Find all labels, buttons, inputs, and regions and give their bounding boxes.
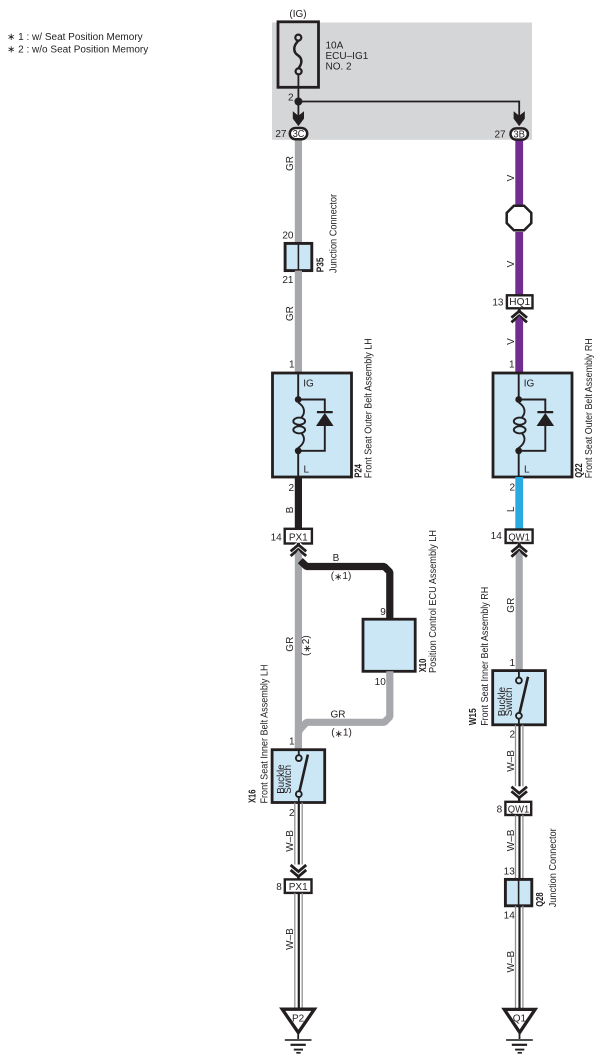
position control ECU X10 box xyxy=(363,619,415,671)
svg-text:Position Control ECU Assembly: Position Control ECU Assembly LH xyxy=(428,530,439,673)
Q22 diode xyxy=(537,411,553,413)
svg-text:(∗2): (∗2) xyxy=(301,635,313,656)
svg-text:9: 9 xyxy=(380,607,386,618)
Q22 terminal dots xyxy=(515,396,522,403)
wire B branch to X10 pin 9 xyxy=(300,561,390,620)
arrow into 3B xyxy=(514,111,525,126)
connector 3B xyxy=(511,128,528,139)
svg-text:Switch: Switch xyxy=(504,687,515,716)
arrow into 3C xyxy=(293,111,304,126)
svg-text:QW1: QW1 xyxy=(508,532,530,543)
svg-text:V: V xyxy=(506,338,517,345)
svg-text:2: 2 xyxy=(509,483,515,494)
svg-text:20: 20 xyxy=(282,231,294,242)
fuse element xyxy=(294,41,301,68)
wire stub above QW1 xyxy=(518,798,521,802)
svg-text:QW1: QW1 xyxy=(508,804,530,815)
svg-text:NO. 2: NO. 2 xyxy=(326,62,353,73)
svg-text:8: 8 xyxy=(497,804,503,815)
svg-text:ECU–IG1: ECU–IG1 xyxy=(326,51,369,62)
chevron continuation up xyxy=(511,546,527,557)
Q22 coil xyxy=(519,403,525,418)
chevron continuation up xyxy=(291,545,307,556)
wire W-B W15 to QW1 xyxy=(515,725,517,787)
wire V octagon to HQ1 xyxy=(515,232,523,296)
svg-text:L: L xyxy=(304,465,310,476)
svg-text:W–B: W–B xyxy=(285,928,296,950)
seat belt assembly Q22 box xyxy=(493,373,572,477)
svg-text:10A: 10A xyxy=(326,41,344,52)
P24 terminal dots xyxy=(295,396,302,403)
seat belt assembly P24 box xyxy=(273,373,352,477)
svg-text:1: 1 xyxy=(289,359,295,370)
svg-text:Q1: Q1 xyxy=(513,1014,527,1025)
svg-text:Junction Connector: Junction Connector xyxy=(548,828,559,908)
svg-text:Front Seat Inner Belt Assembly: Front Seat Inner Belt Assembly RH xyxy=(480,587,491,726)
svg-text:(∗1): (∗1) xyxy=(331,728,352,740)
wire GR X10 pin10 to trunk xyxy=(298,671,389,750)
ground P2 xyxy=(282,1009,314,1032)
svg-text:GR: GR xyxy=(285,156,296,171)
svg-text:2: 2 xyxy=(289,808,295,819)
svg-text:10: 10 xyxy=(375,677,387,688)
svg-text:HQ1: HQ1 xyxy=(509,297,530,308)
svg-text:13: 13 xyxy=(504,866,516,877)
buckle switch X16 box xyxy=(272,750,325,803)
svg-text:Front Seat Inner Belt Assembly: Front Seat Inner Belt Assembly LH xyxy=(259,665,270,804)
wire node 2 horizontal to right branch xyxy=(298,101,519,103)
svg-text:W–B: W–B xyxy=(506,829,517,851)
wire W-B QW1 to Q28 xyxy=(515,815,517,879)
svg-text:P35: P35 xyxy=(316,257,327,272)
svg-text:B: B xyxy=(285,506,296,513)
W15 switch xyxy=(518,671,520,677)
svg-text:V: V xyxy=(506,174,517,181)
svg-text:21: 21 xyxy=(282,275,294,286)
wire GR trunk to X16 xyxy=(295,550,302,750)
svg-text:IG: IG xyxy=(303,378,314,389)
wire L Q22 to QW1 xyxy=(515,477,523,530)
svg-text:W–B: W–B xyxy=(506,951,517,973)
svg-text:∗ 1 : w/ Seat Position Memory: ∗ 1 : w/ Seat Position Memory xyxy=(7,32,143,43)
power source shaded block xyxy=(272,23,532,140)
svg-text:L: L xyxy=(506,506,517,512)
wire W-B Q28 to ground xyxy=(515,906,517,1008)
buckle switch W15 box xyxy=(493,671,546,725)
svg-text:14: 14 xyxy=(271,533,283,544)
wire stub below QW1 xyxy=(517,543,521,547)
ground symbol xyxy=(297,1034,299,1040)
wire GR P35 to P24 xyxy=(295,271,302,374)
node 2 junction dot xyxy=(294,98,302,106)
wire W-B PX1 to ground xyxy=(294,893,296,1008)
svg-text:GR: GR xyxy=(506,598,517,613)
chevron continuation down xyxy=(291,865,307,877)
X16 switch xyxy=(298,750,300,755)
svg-text:GR: GR xyxy=(285,306,296,321)
wire stub below PX1 xyxy=(296,544,300,548)
svg-text:GR: GR xyxy=(285,637,296,652)
wire GR QW1 to W15 xyxy=(516,551,523,671)
svg-text:27: 27 xyxy=(275,129,287,140)
svg-text:W15: W15 xyxy=(468,708,479,725)
svg-text:∗ 2 : w/o Seat Position Memory: ∗ 2 : w/o Seat Position Memory xyxy=(7,45,148,56)
ground Q1 xyxy=(504,1009,535,1032)
wire W-B X16 to PX1 xyxy=(294,803,296,865)
chevron continuation down xyxy=(511,787,527,798)
svg-text:1: 1 xyxy=(509,359,515,370)
svg-text:2: 2 xyxy=(288,483,294,494)
chevron continuation up xyxy=(511,311,527,322)
wire GR from 3C to P35 xyxy=(295,138,302,245)
svg-text:3C: 3C xyxy=(293,129,305,140)
svg-text:Junction Connector: Junction Connector xyxy=(329,193,340,273)
noise filter octagon xyxy=(507,206,532,231)
svg-text:GR: GR xyxy=(331,710,346,721)
P24 coil xyxy=(298,403,304,418)
svg-text:1: 1 xyxy=(509,658,515,669)
wire fuse to node 2 xyxy=(297,75,299,102)
svg-text:Q28: Q28 xyxy=(535,892,546,907)
svg-text:2: 2 xyxy=(288,93,294,104)
wire V from 3B to octagon xyxy=(515,138,523,206)
fuse box 10A ECU-IG1 xyxy=(278,22,319,88)
svg-text:PX1: PX1 xyxy=(289,882,308,893)
P24 diode xyxy=(317,411,333,413)
P24 internal wiring xyxy=(298,373,325,477)
svg-text:Front Seat Outer Belt Assembly: Front Seat Outer Belt Assembly RH xyxy=(584,338,595,478)
wire B P24 to PX1 xyxy=(295,477,302,529)
svg-text:1: 1 xyxy=(289,737,295,748)
ground symbol xyxy=(519,1034,521,1040)
junction connector Q28 xyxy=(505,879,531,905)
svg-text:IG: IG xyxy=(524,378,535,389)
svg-text:X16: X16 xyxy=(248,789,259,803)
svg-text:8: 8 xyxy=(276,882,282,893)
svg-text:V: V xyxy=(506,260,517,267)
wire stub above PX1 xyxy=(297,877,300,880)
svg-text:B: B xyxy=(333,553,340,564)
svg-text:14: 14 xyxy=(491,531,503,542)
svg-text:13: 13 xyxy=(492,297,504,308)
svg-text:W–B: W–B xyxy=(285,830,296,852)
connector 3C xyxy=(290,128,307,139)
wire stub below HQ1 xyxy=(517,308,521,312)
svg-text:(∗1): (∗1) xyxy=(331,571,352,583)
svg-text:(IG): (IG) xyxy=(289,9,306,20)
svg-text:L: L xyxy=(524,465,530,476)
junction connector P35 xyxy=(285,243,312,270)
svg-text:27: 27 xyxy=(494,129,506,140)
wire V HQ1 to Q22 xyxy=(515,316,523,374)
svg-text:14: 14 xyxy=(504,911,516,922)
svg-text:P2: P2 xyxy=(292,1014,305,1025)
svg-text:3B: 3B xyxy=(513,130,525,141)
svg-text:W–B: W–B xyxy=(506,750,517,772)
svg-text:2: 2 xyxy=(509,730,515,741)
Q22 internal wiring xyxy=(519,373,546,477)
svg-text:Front Seat Outer Belt Assembly: Front Seat Outer Belt Assembly LH xyxy=(363,338,374,478)
svg-text:Switch: Switch xyxy=(283,765,294,794)
